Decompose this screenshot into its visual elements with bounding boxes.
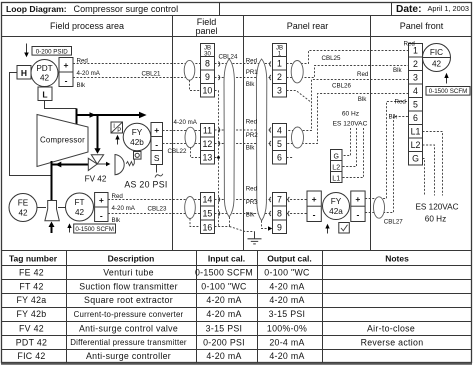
svg-text:FT 42: FT 42: [19, 281, 43, 291]
svg-text:2: 2: [277, 72, 282, 82]
svg-text:7: 7: [277, 195, 282, 205]
cable CBL22 oval: [185, 127, 196, 147]
svg-text:0-100 "WC: 0-100 "WC: [201, 281, 247, 291]
JB1-3 shield stub: [287, 91, 312, 103]
terminals 8-10: [201, 57, 215, 98]
cable CBL26 oval: [292, 127, 304, 148]
svg-text:60 Hz: 60 Hz: [342, 110, 359, 117]
svg-text:42: 42: [18, 208, 28, 217]
svg-text:Red: Red: [404, 41, 416, 48]
svg-text:AS 20 PSI: AS 20 PSI: [124, 180, 167, 190]
svg-text:3-15 PSI: 3-15 PSI: [206, 323, 243, 333]
H tap box: [17, 66, 31, 80]
venturi tube symbol: [45, 201, 59, 221]
svg-text:10: 10: [203, 86, 213, 96]
svg-text:5: 5: [277, 139, 282, 149]
svg-text:L1: L1: [332, 176, 340, 183]
svg-text:9: 9: [205, 72, 210, 82]
svg-text:CBL25: CBL25: [322, 55, 341, 62]
svg-text:S: S: [154, 153, 160, 163]
svg-text:Red: Red: [112, 193, 124, 200]
recycle flow arrow pointing left: [55, 162, 61, 168]
PDT wire Blk to JB30-9: [73, 77, 201, 79]
svg-text:G: G: [412, 154, 419, 164]
svg-text:Square root extractor: Square root extractor: [84, 295, 173, 305]
PR bundle drain to JB1-9: [262, 221, 269, 229]
svg-text:4-20 mA: 4-20 mA: [174, 119, 198, 126]
svg-text:-: -: [65, 76, 68, 86]
tap venturi to FT: [58, 207, 66, 209]
0-1500 SCFM range box: [74, 224, 116, 233]
wires JB1-7/8 to FY42a input: [287, 199, 308, 201]
positioner box under FY 42b: [134, 152, 142, 160]
wires JB30 to JB1 row 15/8: [215, 213, 273, 215]
svg-text:CBL23: CBL23: [148, 205, 167, 212]
svg-text:L2: L2: [332, 165, 340, 172]
arrow from range box to FIC: [446, 78, 448, 84]
wire jump curls on shield bus: [218, 62, 219, 67]
svg-text:FV 42: FV 42: [19, 323, 44, 333]
svg-text:0-100 "WC: 0-100 "WC: [264, 268, 310, 278]
svg-text:Venturi tube: Venturi tube: [103, 268, 154, 278]
svg-text:Blk: Blk: [358, 96, 368, 103]
svg-text:ES 120VAC: ES 120VAC: [333, 120, 368, 127]
svg-text:PR2: PR2: [246, 132, 259, 139]
svg-text:42: 42: [75, 208, 85, 217]
column header row: [2, 36, 472, 38]
svg-text:3: 3: [413, 73, 418, 83]
pair cable PR bundle: [256, 59, 266, 221]
svg-text:Date:: Date:: [396, 4, 421, 15]
svg-text:Description: Description: [108, 253, 155, 263]
shield bus right of JB30: [215, 90, 219, 92]
svg-text:CBL26: CBL26: [332, 82, 351, 89]
arrow valve to actuator: [97, 163, 106, 165]
CBL23 shield to JB30-16: [190, 219, 201, 227]
JB1 terminals 1-3: [273, 57, 287, 98]
svg-text:G: G: [333, 154, 338, 161]
svg-text:FY 42b: FY 42b: [16, 309, 46, 319]
discharge nozzle stub: [76, 109, 78, 127]
wire FY42a - to FIC-6 (CBL27 Blk): [365, 117, 408, 213]
wires JB30 to JB1 row 12/5: [215, 143, 273, 145]
svg-text:April 1, 2003: April 1, 2003: [428, 4, 470, 13]
svg-text:PR1: PR1: [246, 69, 259, 76]
wire FY42a + to FIC-5 (CBL27 Red): [365, 102, 408, 199]
svg-text:FE: FE: [18, 199, 29, 208]
FIC terminal strip: [409, 44, 423, 166]
JB1-6 shield stub: [287, 157, 293, 159]
svg-text:Panel front: Panel front: [400, 21, 444, 31]
FT wire Red to JB30-14: [108, 199, 201, 201]
zigzag link dome to positioner: [126, 159, 134, 165]
FT 42 terminal box: [95, 193, 108, 222]
instrument FE 42: [9, 194, 37, 222]
tap FE to venturi: [37, 207, 46, 209]
svg-text:panel: panel: [195, 26, 217, 36]
power wires to FY42a G/L2/L1: [342, 128, 351, 156]
svg-text:Anti-surge controller: Anti-surge controller: [86, 351, 171, 361]
svg-text:4-20 mA: 4-20 mA: [206, 351, 241, 361]
svg-text:+: +: [99, 195, 104, 205]
wires JB30 to JB1 row 14/7: [215, 199, 273, 201]
svg-text:FV 42: FV 42: [85, 175, 107, 184]
CBL22 shield to JB30-13: [191, 148, 201, 158]
svg-text:Tag number: Tag number: [9, 253, 58, 263]
svg-text:16: 16: [203, 222, 213, 232]
svg-text:0-1500 SCFM: 0-1500 SCFM: [195, 268, 253, 278]
svg-text:-: -: [155, 140, 158, 150]
svg-text:L1: L1: [411, 127, 421, 137]
svg-text:Suction flow transmitter: Suction flow transmitter: [79, 281, 178, 291]
valve FV 42: [88, 158, 97, 170]
cable CBL27 oval: [374, 197, 385, 218]
svg-text:Field process area: Field process area: [50, 21, 124, 31]
svg-text:14: 14: [203, 195, 213, 205]
svg-text:4-20 mA: 4-20 mA: [269, 295, 304, 305]
svg-text:2: 2: [413, 59, 418, 69]
flow arrow on discharge line: [90, 112, 96, 118]
recycle return line to suction: [52, 164, 89, 166]
svg-text:Input cal.: Input cal.: [208, 253, 245, 263]
svg-text:13: 13: [203, 153, 213, 163]
svg-text:Blk: Blk: [393, 67, 403, 74]
svg-text:6: 6: [277, 153, 282, 163]
svg-text:0-200 PSID: 0-200 PSID: [36, 48, 69, 55]
svg-text:4-20 mA: 4-20 mA: [77, 70, 101, 77]
svg-text:FE 42: FE 42: [19, 268, 44, 278]
0-1500 SCFM range arrow: [69, 228, 71, 233]
svg-text:Panel rear: Panel rear: [287, 21, 329, 31]
svg-text:4: 4: [413, 86, 418, 96]
recycle drop line: [97, 115, 99, 149]
svg-text:CBL21: CBL21: [142, 71, 161, 78]
CBL21 shield to JB30-10: [190, 80, 201, 90]
discharge end arrow: [139, 112, 147, 119]
svg-text:FY: FY: [331, 197, 342, 206]
cable CBL21 oval: [184, 60, 195, 80]
wire JB1-2 to FIC-2 (Blk, CBL25): [287, 66, 409, 78]
wire JB1-1 to FIC-1 (Red, CBL25): [287, 51, 409, 64]
svg-text:+: +: [64, 60, 69, 70]
svg-text:Blk: Blk: [77, 82, 87, 89]
svg-text:4-20 mA: 4-20 mA: [206, 295, 241, 305]
svg-text:9: 9: [277, 222, 282, 232]
svg-text:4-20 mA: 4-20 mA: [269, 281, 304, 291]
svg-text:3: 3: [277, 86, 282, 96]
svg-text:Loop Diagram:: Loop Diagram:: [6, 4, 67, 14]
I/P converter box: [111, 122, 123, 133]
svg-text:FIC 42: FIC 42: [17, 351, 45, 361]
wire entry curls left of JB1: [270, 62, 271, 67]
svg-text:Differential pressure transmit: Differential pressure transmitter: [70, 338, 187, 347]
svg-text:Blk: Blk: [112, 217, 122, 224]
svg-text:42b: 42b: [130, 138, 144, 147]
svg-text:20-4 mA: 20-4 mA: [269, 337, 304, 347]
svg-text:-: -: [356, 210, 359, 220]
svg-text:Output cal.: Output cal.: [267, 253, 311, 263]
JB1 terminals 7-9: [273, 193, 287, 234]
JB1 terminals 4-6: [273, 124, 287, 165]
FIC power wires: [423, 132, 443, 196]
svg-text:+: +: [154, 125, 159, 135]
svg-text:Blk: Blk: [246, 145, 256, 152]
svg-text:0-1500 SCFM: 0-1500 SCFM: [429, 88, 468, 95]
svg-text:100%-0%: 100%-0%: [267, 323, 307, 333]
svg-text:15: 15: [203, 208, 213, 218]
FY 42b wire + to JB30-11: [163, 130, 201, 132]
wires JB30 to JB1 row 8/1 Red: [215, 63, 273, 65]
svg-text:Red: Red: [357, 71, 369, 78]
wires JB30 to JB1 row 9/2 Blk: [215, 77, 273, 79]
0-200 PSID range box: [32, 47, 72, 56]
recycle drop arrow: [94, 148, 100, 154]
discharge process line: [76, 114, 142, 116]
svg-text:Red: Red: [77, 58, 89, 65]
svg-text:Red: Red: [246, 118, 258, 125]
column borders: [172, 16, 174, 251]
svg-text:FY: FY: [132, 128, 143, 137]
svg-text:Air-to-close: Air-to-close: [367, 323, 415, 333]
svg-text:4-20 mA: 4-20 mA: [112, 205, 136, 212]
svg-text:Blk: Blk: [246, 81, 256, 88]
FY 42a G/L2/L1 terminal boxes: [331, 150, 343, 183]
wire from L box down and right to discharge stub: [45, 101, 77, 109]
svg-text:-: -: [313, 210, 316, 220]
svg-text:H: H: [21, 68, 27, 78]
svg-text:CBL27: CBL27: [384, 219, 403, 226]
instrument PDT 42: [31, 60, 58, 87]
svg-text:Red: Red: [246, 185, 258, 192]
suction pipe: [51, 161, 53, 201]
svg-text:4: 4: [277, 126, 282, 136]
svg-text:8: 8: [205, 59, 210, 69]
L tap box: [38, 87, 52, 101]
suction flow arrow below venturi: [51, 227, 53, 234]
svg-text:42: 42: [40, 73, 50, 82]
svg-text:42a: 42a: [329, 207, 343, 216]
svg-text:0-1500 SCFM: 0-1500 SCFM: [75, 226, 114, 233]
svg-text:Reverse action: Reverse action: [361, 337, 424, 347]
terminal strip JB1 header: [273, 44, 287, 57]
terminal strip JB30 header: [201, 44, 215, 57]
table grid: [2, 250, 472, 252]
svg-text:0-200 PSI: 0-200 PSI: [203, 337, 245, 347]
svg-text:3-15 PSI: 3-15 PSI: [269, 309, 306, 319]
multicore cable CBL24: [224, 59, 234, 217]
svg-text:FY 42a: FY 42a: [16, 295, 46, 305]
svg-text:+: +: [355, 194, 360, 204]
cable CBL25 oval: [291, 60, 303, 82]
CBL24 drain to ground bus: [229, 217, 231, 227]
svg-text:L: L: [42, 90, 47, 100]
FY 42b terminal box: [151, 123, 163, 165]
FY 42a left terminal box: [307, 191, 321, 222]
terminals 11-13: [201, 124, 215, 165]
svg-text:Current-to-pressure converter: Current-to-pressure converter: [74, 310, 184, 319]
svg-text:8: 8: [277, 208, 282, 218]
cable CBL23 oval: [185, 197, 196, 219]
ground symbol below JB1: [230, 227, 255, 232]
svg-text:PDT 42: PDT 42: [16, 337, 47, 347]
PDT 42 terminal box: [59, 58, 73, 87]
square root check box: [339, 223, 350, 234]
svg-text:CBL22: CBL22: [168, 148, 187, 155]
svg-text:FIC: FIC: [430, 48, 443, 57]
instrument FY 42b: [123, 123, 151, 151]
svg-text:P: P: [117, 128, 121, 134]
svg-text:Red: Red: [246, 58, 258, 65]
svg-text:Compressor surge control: Compressor surge control: [74, 4, 179, 14]
svg-text:12: 12: [203, 139, 213, 149]
svg-text:Compressor: Compressor: [40, 136, 85, 145]
wires JB30 to JB1 row 11/4: [215, 129, 273, 131]
svg-text:+: +: [312, 194, 317, 204]
up arrow to I/P: [117, 139, 119, 145]
wire from H box left down to suction pipe: [10, 73, 52, 176]
up arrow below FY 42a: [327, 228, 329, 234]
svg-text:PR3: PR3: [246, 199, 259, 206]
wire FIC-3 to JB1-4 (CBL26): [287, 80, 409, 131]
svg-text:5: 5: [413, 100, 418, 110]
svg-text:Blk: Blk: [389, 113, 399, 120]
svg-text:4-20 mA: 4-20 mA: [206, 309, 241, 319]
FT wire Blk to JB30-15: [108, 213, 201, 215]
svg-text:60 Hz: 60 Hz: [425, 215, 446, 224]
svg-text:L2: L2: [411, 140, 421, 150]
compressor body: [37, 115, 88, 167]
wire FIC-4 to JB1-5 (CBL26): [287, 94, 409, 144]
svg-text:11: 11: [203, 126, 212, 136]
instrument FY 42a: [323, 193, 350, 220]
svg-text:Anti-surge control valve: Anti-surge control valve: [79, 323, 178, 333]
instrument FT 42: [66, 193, 94, 221]
svg-text:Notes: Notes: [385, 253, 409, 263]
0-200 PSID range arrow: [26, 44, 28, 54]
svg-text:FT: FT: [74, 198, 84, 207]
svg-text:4-20 mA: 4-20 mA: [269, 351, 304, 361]
svg-text:PDT: PDT: [36, 64, 52, 73]
svg-text:42: 42: [432, 60, 442, 69]
svg-text:ES 120VAC: ES 120VAC: [415, 203, 458, 212]
controller FIC 42: [423, 44, 451, 72]
svg-text:Red: Red: [395, 99, 407, 106]
actuator dome: [115, 155, 124, 175]
svg-text:1: 1: [277, 59, 282, 69]
FY 42a right terminal box: [351, 191, 365, 222]
svg-text:6: 6: [413, 113, 418, 123]
svg-text:-: -: [100, 211, 103, 221]
FY 42b wire - to JB30-12: [163, 143, 201, 145]
svg-text:CBL24: CBL24: [219, 53, 238, 60]
terminals 14-16: [201, 193, 215, 234]
air supply line + squiggle: [156, 165, 158, 173]
svg-text:Blk: Blk: [246, 211, 256, 218]
title row divider: [2, 15, 472, 17]
PDT wire Red to JB30-8: [73, 63, 201, 65]
0-1500 SCFM range box: [426, 87, 470, 96]
